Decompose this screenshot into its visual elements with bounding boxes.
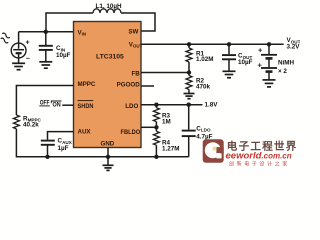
svg-text:1.27M: 1.27M <box>162 146 180 153</box>
node VIN junction <box>44 30 48 34</box>
svg-text:1M: 1M <box>162 119 171 126</box>
pin SHDN label <box>78 101 94 110</box>
ground (R2) <box>184 94 195 99</box>
ground (battery) <box>263 80 276 87</box>
node R4-rail <box>154 155 158 159</box>
node LDO-CLDO <box>187 103 191 107</box>
svg-text:40.2k: 40.2k <box>23 121 39 128</box>
wire GND pin down <box>107 148 109 166</box>
wire PGOOD stub <box>141 85 154 87</box>
wire AUX <box>48 132 74 140</box>
node CAUX-rail <box>45 155 49 159</box>
svg-text:FBLDO: FBLDO <box>121 129 141 136</box>
svg-text:创新电子设计之家: 创新电子设计之家 <box>229 160 290 167</box>
capacitor CAUX <box>41 138 73 158</box>
IC U1 LTC3105 body <box>74 22 142 148</box>
svg-text:–: – <box>26 56 30 63</box>
svg-text:1.02M: 1.02M <box>196 56 214 63</box>
svg-text:LTC3105: LTC3105 <box>96 53 124 60</box>
pin VOUT label <box>129 42 143 49</box>
svg-text:AUX: AUX <box>78 129 92 136</box>
svg-text:MPPC: MPPC <box>78 81 96 88</box>
resistor R4 <box>153 127 179 157</box>
svg-text:SW: SW <box>128 29 138 36</box>
svg-text:1µF: 1µF <box>58 145 69 152</box>
resistor R1 <box>186 42 214 72</box>
svg-text:L1, 10µH: L1, 10µH <box>96 3 122 10</box>
wire FBLDO <box>141 126 156 128</box>
svg-text:PGOOD: PGOOD <box>117 81 141 88</box>
ground (CIN) <box>39 62 52 68</box>
svg-text:+: + <box>26 40 30 47</box>
svg-text:3.2V: 3.2V <box>287 43 301 50</box>
node GND-rail <box>106 155 110 159</box>
switch label OFF/ON <box>39 100 73 109</box>
svg-text:eeworld.com.cn: eeworld.com.cn <box>226 151 292 162</box>
node FBLDO junction <box>154 125 158 129</box>
wire FB <box>141 72 189 74</box>
ground (chip GND) <box>103 165 114 170</box>
svg-text:10µF: 10µF <box>238 59 253 66</box>
node FB junction <box>187 70 191 74</box>
resistor R3 <box>153 105 170 128</box>
wire MPPC <box>16 86 73 116</box>
ground (solar cell) <box>12 63 25 69</box>
wire VOUT line <box>141 43 284 45</box>
wire top loop from VIN node to inductor and SW <box>46 13 155 32</box>
svg-text:ON: ON <box>53 102 62 109</box>
svg-text:× 2: × 2 <box>278 68 287 75</box>
svg-text:10µF: 10µF <box>56 52 71 59</box>
svg-text:NiMH: NiMH <box>278 60 295 67</box>
ground (COUT) <box>223 71 236 77</box>
battery B1 NiMH x2 <box>258 42 295 80</box>
capacitor COUT <box>222 42 253 71</box>
wire ground rail <box>16 156 188 158</box>
svg-text:FB: FB <box>131 70 140 77</box>
wire VIN horizontal <box>19 31 74 33</box>
resistor R2 <box>186 73 211 94</box>
resistor RMPPC <box>13 115 41 158</box>
svg-text:GND: GND <box>101 140 115 147</box>
inductor L1 <box>93 9 121 13</box>
solar cell PV1 <box>0 32 30 63</box>
capacitor CLDO <box>182 105 213 157</box>
watermark logo eeworld <box>203 139 298 167</box>
svg-text:SHDN: SHDN <box>78 103 94 110</box>
capacitor CIN <box>39 32 71 62</box>
node LDO-R3 <box>154 103 158 107</box>
svg-text:+: + <box>258 46 263 55</box>
svg-text:1.8V: 1.8V <box>205 101 219 108</box>
svg-text:LDO: LDO <box>125 103 138 110</box>
wire LDO 1.8V <box>141 104 203 106</box>
svg-text:470k: 470k <box>196 84 211 91</box>
